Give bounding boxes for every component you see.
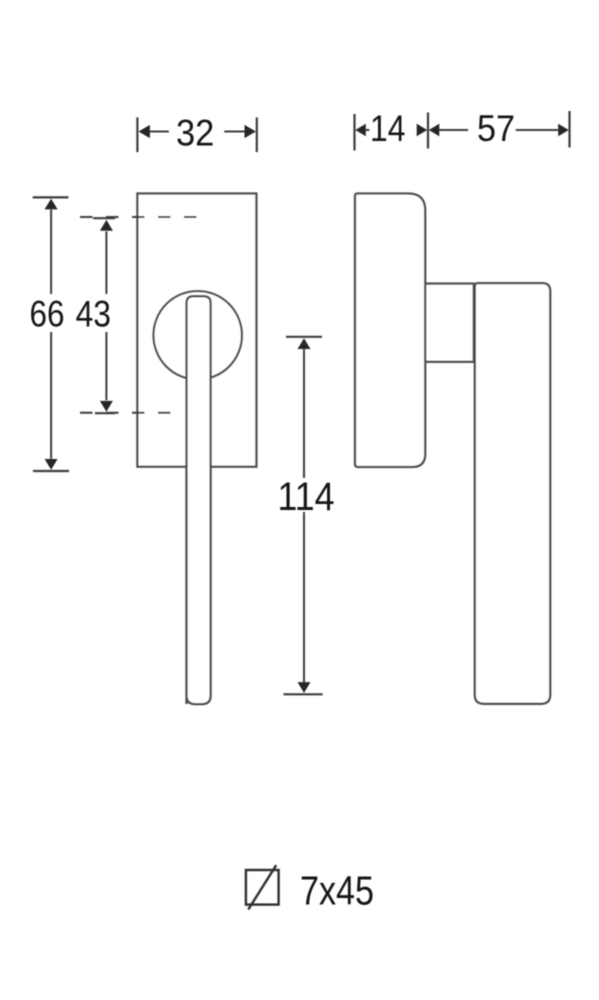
dim 32 extension tick right	[256, 117, 258, 152]
dim 14 label	[370, 108, 405, 149]
dim 114 top arrow	[298, 338, 311, 478]
dim 114 bottom tick	[284, 693, 323, 695]
dim 43 label	[76, 294, 111, 335]
dim 57 label	[477, 108, 515, 149]
svg-text:7x45: 7x45	[300, 868, 374, 914]
label 7x45	[300, 868, 374, 914]
dim 66 top arrow	[45, 199, 58, 294]
dim 57 extension tick right	[568, 111, 570, 148]
dim 32 extension tick left	[136, 117, 138, 152]
dim 43 bottom arrow	[100, 332, 113, 412]
dim 66 label	[30, 294, 65, 335]
dim 32 label	[176, 113, 214, 154]
dim 32 left arrow	[139, 125, 169, 138]
dim 14 right arrow	[417, 124, 428, 136]
svg-text:114: 114	[278, 475, 335, 519]
dim 14 extension tick left	[353, 114, 355, 151]
dim 114 top tick	[286, 336, 322, 338]
dim 114 label	[278, 475, 335, 519]
hole centerline dashed bottom	[80, 412, 175, 414]
rosette circle	[153, 291, 242, 380]
front plate	[137, 194, 256, 467]
svg-text:66: 66	[30, 294, 65, 335]
dim 43 top arrow	[100, 220, 113, 294]
dim 14 left arrow	[355, 124, 369, 136]
hole centerline dashed top	[80, 216, 198, 218]
dim 66 top tick	[33, 196, 69, 198]
section symbol square	[246, 870, 279, 905]
dim 66 bottom arrow	[45, 332, 58, 470]
dim 14/57 middle tick	[427, 113, 429, 149]
spindle neck	[425, 284, 474, 362]
dim 43 bottom tick	[95, 412, 115, 414]
side handle grip	[475, 283, 550, 704]
svg-text:43: 43	[76, 294, 111, 335]
dim 32 right arrow	[224, 125, 256, 138]
front handle grip	[187, 296, 211, 704]
side plate	[355, 194, 425, 468]
dim 57 right arrow	[516, 124, 569, 136]
svg-text:14: 14	[370, 108, 405, 149]
dim 57 left arrow	[429, 124, 468, 136]
dim 43 top tick	[93, 217, 115, 219]
dim 114 bottom arrow	[298, 512, 311, 693]
section symbol diagonal	[248, 865, 276, 909]
svg-text:32: 32	[176, 113, 214, 154]
dim 66 bottom tick	[33, 470, 69, 472]
svg-text:57: 57	[477, 108, 515, 149]
